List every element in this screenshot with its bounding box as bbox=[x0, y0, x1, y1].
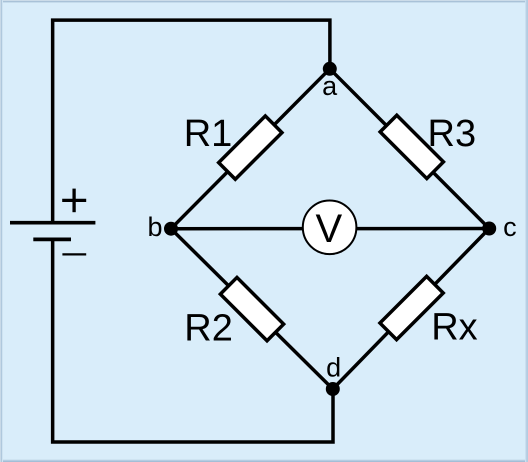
node b junction dot bbox=[164, 222, 178, 236]
svg-text:Rx: Rx bbox=[431, 307, 477, 349]
battery positive plate bbox=[10, 221, 95, 225]
wire: battery - terminal down and across bottom to node d bbox=[53, 239, 333, 442]
resistor R2 body bbox=[220, 277, 283, 340]
node a junction dot bbox=[323, 62, 337, 76]
battery - label bbox=[62, 253, 86, 255]
wire: node d to node c bbox=[333, 229, 489, 390]
battery + label bbox=[62, 189, 86, 213]
resistor Rx body bbox=[380, 276, 443, 339]
battery negative plate bbox=[33, 237, 71, 241]
svg-text:a: a bbox=[322, 71, 338, 101]
wire: node a to node c bbox=[330, 69, 489, 229]
resistor R3 body bbox=[380, 115, 443, 178]
svg-text:R1: R1 bbox=[184, 113, 233, 155]
node c junction dot bbox=[482, 222, 496, 236]
svg-text:c: c bbox=[503, 212, 516, 242]
wire: node a to node b bbox=[171, 69, 330, 229]
svg-text:R3: R3 bbox=[428, 113, 477, 155]
resistor R1 body bbox=[219, 116, 282, 179]
wire: node b to node c through voltmeter bbox=[171, 227, 489, 231]
svg-text:b: b bbox=[147, 212, 162, 242]
svg-text:V: V bbox=[316, 207, 343, 251]
svg-text:d: d bbox=[326, 353, 341, 383]
voltmeter V circle bbox=[303, 201, 357, 255]
svg-text:R2: R2 bbox=[184, 308, 233, 350]
node d junction dot bbox=[326, 382, 340, 396]
wire: battery + terminal up and across top to node a bbox=[53, 20, 330, 224]
wire: node b to node d bbox=[171, 229, 333, 389]
